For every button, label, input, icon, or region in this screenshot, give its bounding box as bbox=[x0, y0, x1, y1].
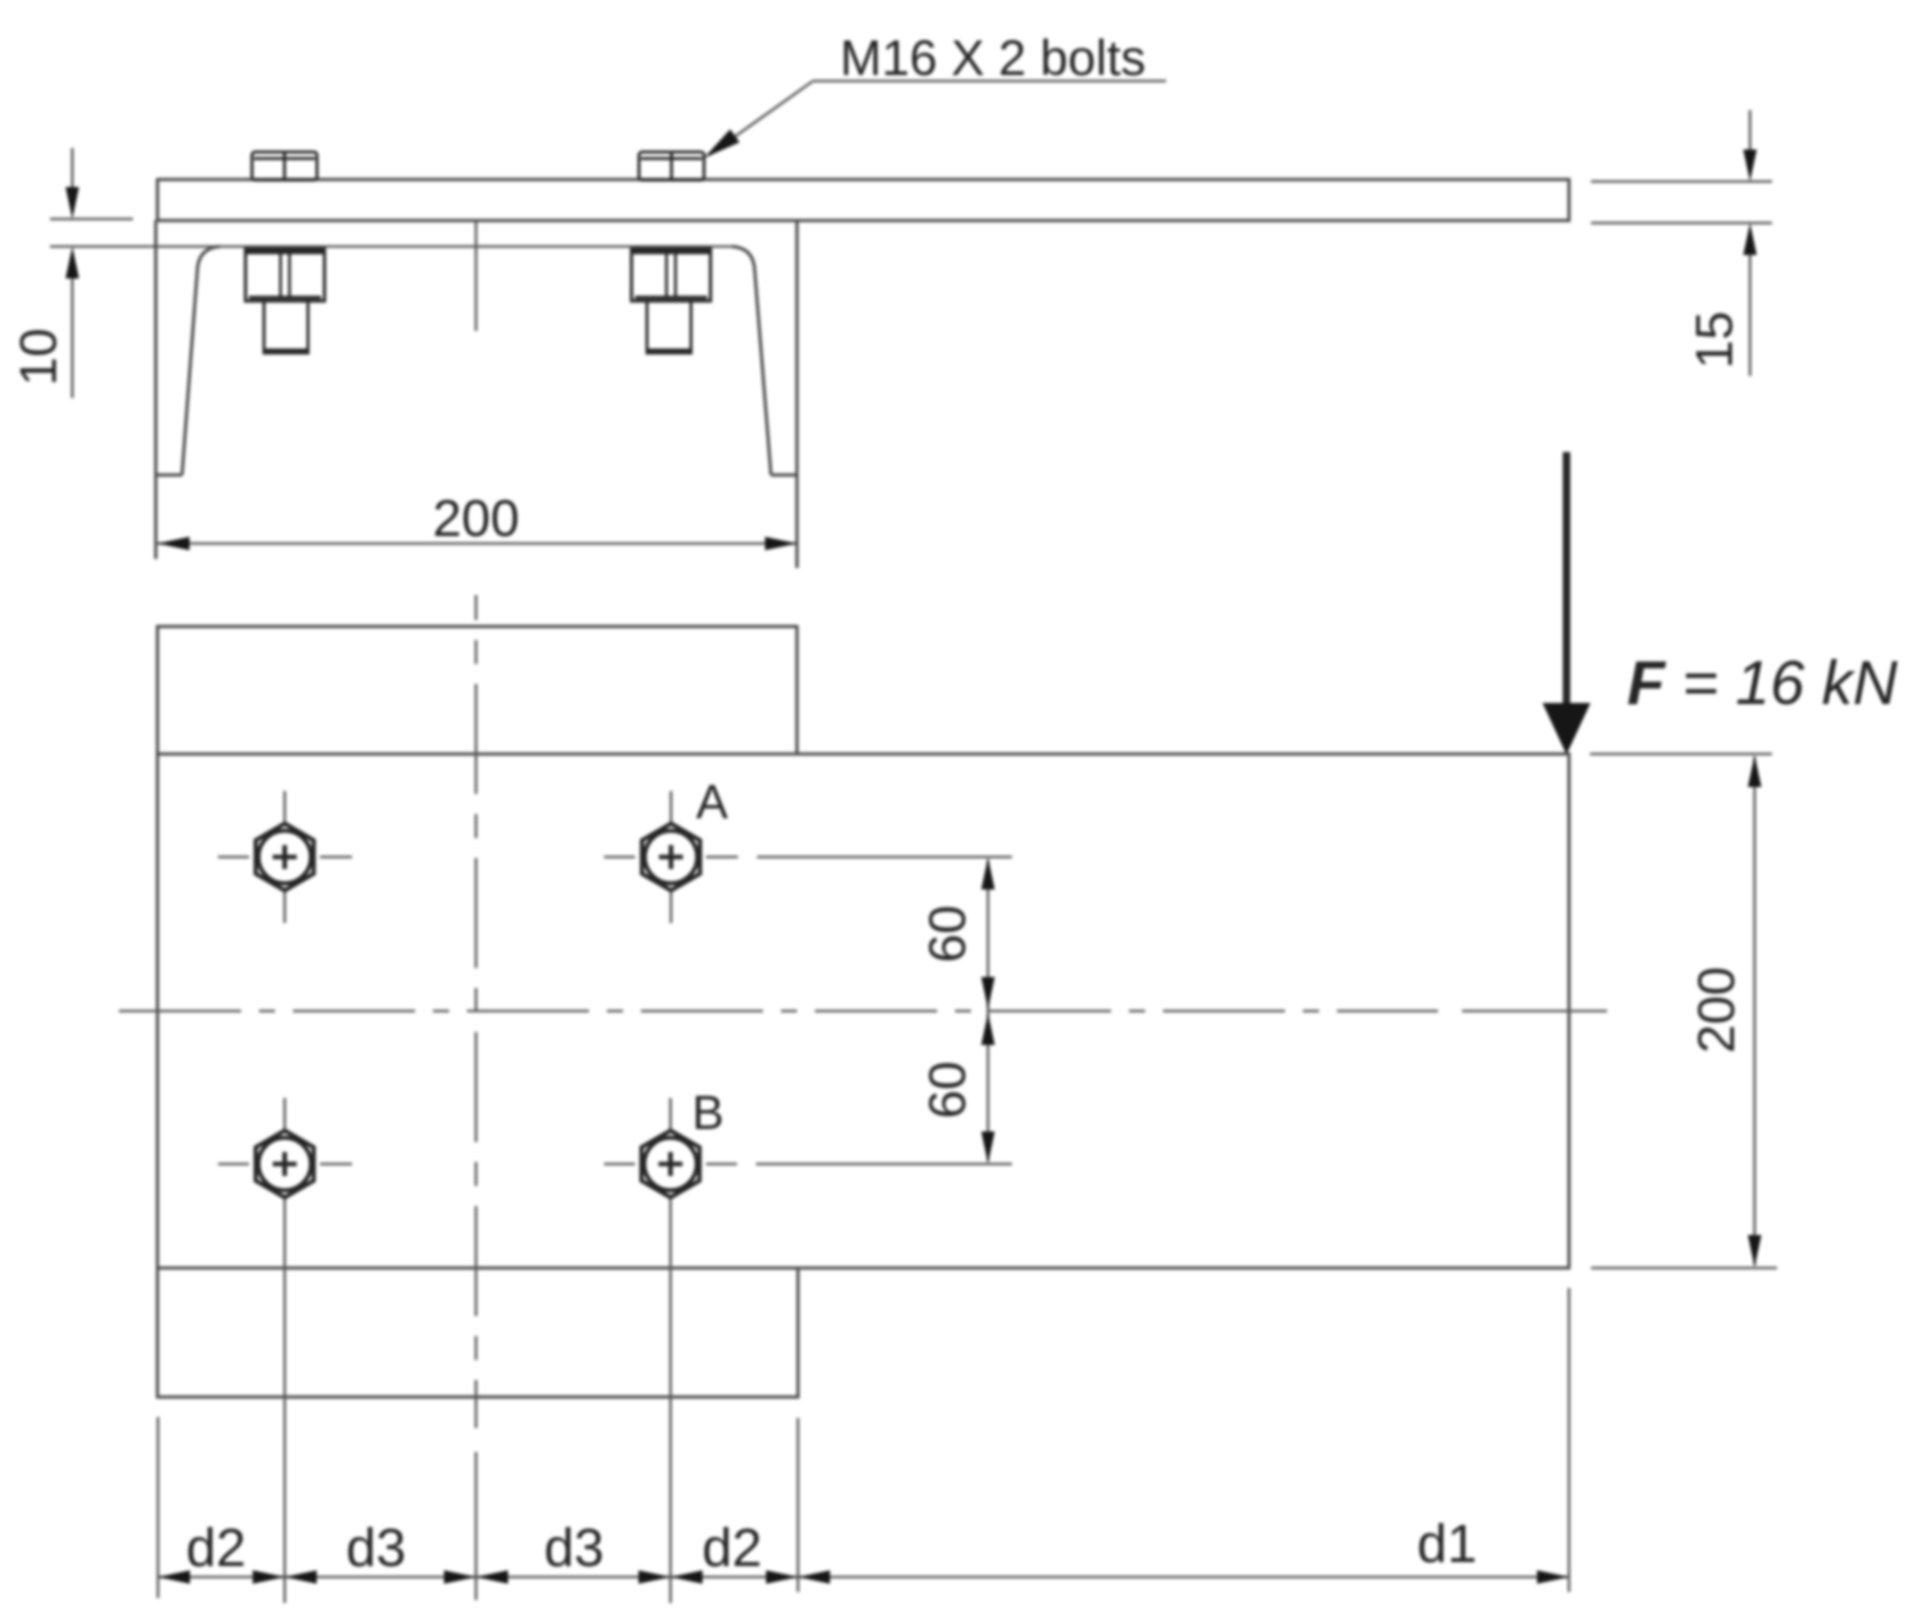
extension line left bbox=[157, 1417, 160, 1598]
leader underline bbox=[813, 80, 1166, 83]
extension line plate right bbox=[1568, 1288, 1571, 1592]
extension line bolt column left bbox=[283, 1199, 286, 1603]
svg-text:A: A bbox=[696, 776, 728, 829]
dimension 200 (plan view) bbox=[1590, 754, 1777, 1268]
svg-text:d3: d3 bbox=[346, 1518, 406, 1578]
vertical centerline bbox=[475, 595, 478, 1428]
bolt bottom-left (plan) bbox=[218, 1098, 352, 1198]
dimension 10 bbox=[10, 148, 133, 398]
nut left (side view) bbox=[246, 249, 325, 301]
svg-text:200: 200 bbox=[1688, 967, 1746, 1054]
left leg inner edge bbox=[182, 247, 220, 476]
dim60 dimension line bbox=[987, 860, 990, 1161]
dimension 15 bbox=[1591, 110, 1772, 376]
svg-text:d2: d2 bbox=[702, 1518, 762, 1578]
force arrow F bbox=[1563, 452, 1571, 706]
dim60 arrows bbox=[981, 858, 995, 890]
dim200 side arrows bbox=[158, 537, 190, 551]
svg-text:M16 X 2 bolts: M16 X 2 bolts bbox=[840, 30, 1146, 86]
channel flange lower (plan view) bbox=[158, 1268, 799, 1397]
svg-text:15: 15 bbox=[1686, 311, 1744, 369]
bolt head right (side view) bbox=[639, 152, 704, 180]
dim200 plan extension lines bbox=[1590, 753, 1772, 756]
svg-text:d2: d2 bbox=[186, 1518, 246, 1578]
chained dimensions d2 d3 d3 d2 d1 bbox=[158, 1288, 1569, 1598]
svg-text:200: 200 bbox=[433, 490, 520, 548]
extension line bolt column right bbox=[669, 1199, 672, 1603]
dim60 extension lines bbox=[757, 856, 1012, 859]
dim10 lower line and arrow bbox=[71, 276, 74, 398]
plate (plan view) bbox=[158, 754, 1570, 1268]
right leg bottom bbox=[771, 473, 797, 476]
horizontal centerline bbox=[119, 1010, 1438, 1013]
nut right (side view) bbox=[632, 249, 711, 301]
right leg outer edge + extension bbox=[795, 220, 798, 568]
flange top line + left extension for dim 10 bbox=[50, 245, 732, 248]
bolt head left (side view) bbox=[252, 152, 317, 180]
bolt shank right (side view) bbox=[647, 301, 691, 353]
extension line flange right bbox=[797, 1418, 800, 1592]
svg-text:10: 10 bbox=[10, 328, 68, 386]
bolt top-left (plan) bbox=[218, 791, 352, 923]
dim15 lines and arrows bbox=[1749, 110, 1752, 152]
leader line bbox=[709, 81, 813, 155]
chain dimension line bbox=[158, 1576, 1569, 1579]
svg-text:60: 60 bbox=[919, 1061, 977, 1119]
dim10 extension line bbox=[50, 218, 133, 221]
dim200 plan arrows bbox=[1748, 755, 1762, 787]
svg-text:d1: d1 bbox=[1417, 1514, 1477, 1574]
dim15 extension lines bbox=[1591, 180, 1772, 183]
svg-text:F = 16 kN: F = 16 kN bbox=[1627, 649, 1898, 718]
bolt shank left (side view) bbox=[264, 301, 308, 353]
leader arrowhead bbox=[704, 129, 740, 158]
dim10 upper line and arrow bbox=[71, 148, 74, 190]
channel flange upper (plan view) bbox=[158, 627, 798, 755]
bolt B (plan) bbox=[604, 1098, 737, 1198]
chain dimension arrows bbox=[158, 1570, 190, 1584]
dim200 side dimension line bbox=[158, 542, 798, 545]
bolt A (plan) bbox=[604, 791, 738, 923]
dimension 60/60 bbox=[756, 857, 1012, 1164]
svg-text:60: 60 bbox=[919, 905, 977, 963]
dimension 200 (side view) bbox=[158, 490, 798, 550]
dim200 plan dimension line bbox=[1753, 757, 1756, 1265]
right leg inner edge bbox=[732, 247, 771, 476]
svg-text:d3: d3 bbox=[544, 1518, 604, 1578]
top plate (side view) bbox=[158, 180, 1570, 221]
left leg outer edge + extension bbox=[154, 220, 157, 559]
section centerline bbox=[475, 220, 478, 331]
left leg bottom bbox=[156, 473, 182, 476]
channel bracket (side view) bbox=[50, 220, 797, 568]
svg-text:B: B bbox=[692, 1087, 724, 1140]
